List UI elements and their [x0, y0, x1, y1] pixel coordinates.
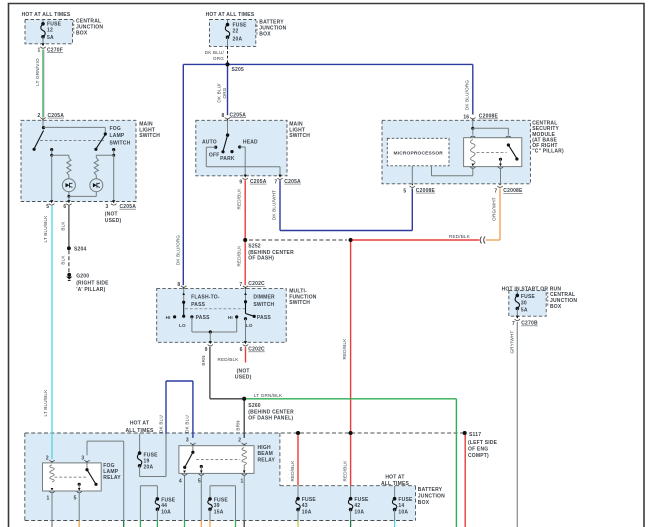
svg-text:FOG: FOG	[110, 126, 121, 132]
svg-text:C205A: C205A	[250, 179, 267, 185]
svg-text:GRY/WHT: GRY/WHT	[510, 330, 515, 353]
svg-text:10A: 10A	[398, 509, 408, 515]
svg-text:ORG: ORG	[213, 56, 224, 61]
svg-text:LT GRN/BLK: LT GRN/BLK	[254, 393, 283, 398]
svg-text:5: 5	[46, 204, 49, 210]
svg-text:RED/BLK: RED/BLK	[449, 234, 471, 239]
svg-text:BATTERY: BATTERY	[418, 487, 443, 493]
svg-text:RED/BLK: RED/BLK	[237, 245, 242, 267]
svg-text:8: 8	[177, 282, 180, 288]
svg-text:10A: 10A	[354, 509, 364, 515]
svg-text:C2008E: C2008E	[416, 188, 436, 194]
svg-text:ORG/WHT: ORG/WHT	[492, 197, 497, 221]
svg-text:LO: LO	[246, 323, 253, 328]
svg-text:(NOT: (NOT	[105, 212, 118, 218]
svg-text:LAMP: LAMP	[103, 469, 118, 475]
svg-text:7: 7	[239, 282, 242, 288]
svg-text:BOX: BOX	[550, 304, 562, 310]
svg-text:C2008E: C2008E	[503, 188, 523, 194]
svg-text:(RIGHT SIDE: (RIGHT SIDE	[76, 280, 109, 286]
svg-text:3: 3	[81, 455, 84, 461]
svg-text:5A: 5A	[47, 35, 54, 41]
svg-text:HOT AT ALL TIMES: HOT AT ALL TIMES	[22, 12, 71, 18]
svg-text:3: 3	[106, 204, 109, 210]
svg-text:DK BLU/: DK BLU/	[205, 50, 225, 55]
svg-text:"C" PILLAR): "C" PILLAR)	[532, 149, 564, 155]
svg-text:DK BLU/ORG: DK BLU/ORG	[464, 80, 469, 111]
svg-text:43: 43	[302, 503, 308, 509]
svg-text:6: 6	[63, 204, 66, 210]
svg-text:DK BLU: DK BLU	[184, 415, 189, 433]
svg-text:PASS: PASS	[196, 315, 211, 321]
svg-text:SWITCH: SWITCH	[110, 141, 131, 147]
svg-text:9: 9	[205, 347, 208, 353]
svg-text:RED/BLK: RED/BLK	[217, 357, 239, 362]
svg-text:S205: S205	[232, 67, 244, 73]
svg-text:DIMMER: DIMMER	[253, 295, 275, 301]
svg-text:ALL TIMES: ALL TIMES	[125, 428, 154, 434]
svg-text:RELAY: RELAY	[258, 457, 276, 463]
svg-text:FUSE: FUSE	[521, 294, 536, 300]
svg-text:C270B: C270B	[521, 321, 538, 327]
svg-text:5: 5	[74, 495, 77, 501]
svg-text:30: 30	[521, 300, 527, 306]
svg-text:HEAD: HEAD	[243, 140, 258, 146]
svg-text:BRN: BRN	[201, 355, 206, 365]
svg-text:LT BLU/BLK: LT BLU/BLK	[43, 389, 48, 417]
svg-text:2: 2	[238, 438, 241, 444]
svg-text:1: 1	[38, 48, 41, 54]
svg-text:RED/BLK: RED/BLK	[343, 460, 348, 482]
svg-text:C205A: C205A	[120, 204, 137, 210]
svg-text:7: 7	[494, 189, 497, 195]
svg-text:OF ENG: OF ENG	[468, 447, 488, 453]
svg-text:JUNCTION: JUNCTION	[418, 493, 445, 499]
svg-text:SWITCH: SWITCH	[253, 302, 274, 308]
svg-text:10A: 10A	[302, 509, 312, 515]
svg-text:6: 6	[240, 347, 243, 353]
svg-text:9: 9	[239, 179, 242, 185]
svg-text:BRN: BRN	[236, 420, 241, 430]
svg-text:C202C: C202C	[248, 281, 265, 287]
svg-text:PARK: PARK	[220, 156, 235, 162]
svg-text:C202C: C202C	[248, 347, 265, 353]
svg-text:(LEFT SIDE: (LEFT SIDE	[468, 440, 498, 446]
svg-text:RED/BLK: RED/BLK	[290, 460, 295, 482]
svg-text:HI: HI	[228, 315, 233, 320]
svg-text:42: 42	[354, 503, 360, 509]
svg-text:12: 12	[47, 27, 53, 33]
svg-text:5: 5	[198, 479, 201, 485]
svg-text:LT GRN/VIO: LT GRN/VIO	[35, 58, 40, 86]
svg-text:14: 14	[398, 503, 404, 509]
svg-text:5A: 5A	[521, 308, 528, 314]
svg-text:C205A: C205A	[230, 112, 247, 118]
svg-text:7: 7	[274, 179, 277, 185]
svg-text:HIGH: HIGH	[258, 445, 271, 451]
svg-text:DK BLU/WHT: DK BLU/WHT	[271, 190, 276, 220]
svg-text:44: 44	[161, 503, 167, 509]
svg-text:DK BLU/: DK BLU/	[216, 83, 221, 103]
svg-text:RED/BLK: RED/BLK	[342, 338, 347, 360]
svg-text:FLASH-TO-: FLASH-TO-	[191, 295, 220, 301]
svg-text:3: 3	[186, 438, 189, 444]
svg-text:7: 7	[512, 321, 515, 327]
svg-text:AUTO: AUTO	[202, 140, 217, 146]
svg-text:COMPT): COMPT)	[468, 453, 489, 459]
svg-text:39: 39	[214, 503, 220, 509]
svg-text:FOG: FOG	[103, 463, 114, 469]
svg-text:OF DASH PANEL): OF DASH PANEL)	[248, 416, 293, 422]
svg-text:16: 16	[463, 114, 469, 120]
svg-text:RED/BLK: RED/BLK	[237, 188, 242, 210]
svg-text:USED): USED)	[105, 218, 122, 224]
svg-text:'A' PILLAR): 'A' PILLAR)	[76, 287, 105, 293]
svg-text:C205A: C205A	[284, 179, 301, 185]
svg-text:C2008E: C2008E	[479, 114, 499, 120]
svg-text:S252: S252	[248, 244, 260, 250]
svg-text:G200: G200	[76, 274, 89, 280]
svg-text:BLK: BLK	[60, 255, 65, 265]
svg-text:OFF: OFF	[209, 152, 220, 158]
svg-text:1: 1	[47, 495, 50, 501]
svg-text:8: 8	[222, 113, 225, 119]
svg-text:PASS: PASS	[257, 315, 272, 321]
svg-text:C205A: C205A	[48, 113, 65, 119]
svg-text:DK BLU/ORG: DK BLU/ORG	[176, 235, 181, 266]
svg-text:1: 1	[241, 479, 244, 485]
svg-text:PASS: PASS	[191, 302, 206, 308]
svg-text:2: 2	[46, 455, 49, 461]
svg-text:ALL TIMES: ALL TIMES	[381, 481, 410, 487]
svg-text:C270F: C270F	[47, 47, 63, 53]
svg-text:LT BLU/BLK: LT BLU/BLK	[43, 215, 48, 243]
svg-text:10A: 10A	[161, 510, 171, 516]
svg-text:4: 4	[179, 479, 182, 485]
svg-text:USED): USED)	[235, 375, 252, 381]
svg-text:(BEHIND CENTER: (BEHIND CENTER	[248, 409, 294, 415]
svg-text:15A: 15A	[214, 510, 224, 516]
svg-text:OF DASH): OF DASH)	[248, 256, 274, 262]
svg-text:HI: HI	[166, 315, 171, 320]
svg-text:HOT AT: HOT AT	[130, 421, 149, 427]
svg-text:(NOT: (NOT	[237, 368, 250, 374]
svg-text:SWITCH: SWITCH	[139, 133, 160, 139]
svg-text:DK BLU: DK BLU	[158, 415, 163, 433]
svg-text:LAMP: LAMP	[110, 133, 125, 139]
svg-text:BEAM: BEAM	[258, 451, 274, 457]
svg-text:FUSE: FUSE	[233, 22, 248, 28]
svg-text:S117: S117	[469, 432, 481, 438]
svg-text:20A: 20A	[144, 464, 154, 470]
svg-text:S204: S204	[74, 247, 86, 253]
svg-text:SWITCH: SWITCH	[289, 133, 310, 139]
svg-text:BLK: BLK	[60, 221, 65, 231]
svg-text:BOX: BOX	[76, 31, 88, 37]
svg-text:BOX: BOX	[418, 500, 430, 506]
svg-text:RELAY: RELAY	[103, 475, 121, 481]
svg-text:SWITCH: SWITCH	[289, 300, 310, 306]
svg-text:S260: S260	[248, 403, 260, 409]
svg-text:HOT AT: HOT AT	[385, 474, 404, 480]
svg-text:MICROPROCESSOR: MICROPROCESSOR	[393, 150, 443, 156]
svg-text:22: 22	[233, 29, 239, 35]
svg-text:20A: 20A	[233, 36, 243, 42]
svg-text:HOT AT ALL TIMES: HOT AT ALL TIMES	[206, 12, 255, 18]
svg-text:ORG: ORG	[222, 87, 227, 98]
svg-text:5: 5	[403, 188, 406, 194]
svg-text:2: 2	[38, 113, 41, 119]
svg-text:BOX: BOX	[259, 31, 271, 37]
svg-text:LO: LO	[179, 323, 186, 328]
